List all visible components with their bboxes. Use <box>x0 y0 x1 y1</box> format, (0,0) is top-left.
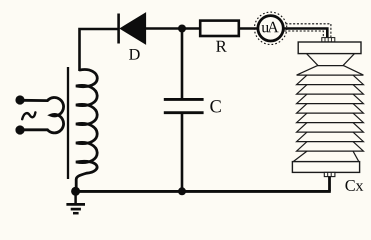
capacitor C bottom plate <box>164 111 204 114</box>
bushing sheds <box>293 66 363 162</box>
transformer primary winding <box>23 98 64 133</box>
bushing bottom cap <box>292 162 359 173</box>
ground <box>66 191 85 213</box>
node junction bottom left <box>71 187 80 196</box>
capacitor C top plate <box>164 98 204 101</box>
node junction bottom middle <box>178 187 186 195</box>
label D <box>129 49 140 60</box>
AC source terminal bottom <box>15 125 24 134</box>
resistor R <box>200 21 239 36</box>
bushing neck left <box>307 54 319 66</box>
label Cx <box>345 180 363 191</box>
transformer secondary winding <box>76 70 97 190</box>
shielded cable solid conductor <box>284 29 328 39</box>
wire secondary top to diode <box>80 29 119 71</box>
shielded cable dashed shield top <box>286 24 331 37</box>
bushing neck right <box>343 54 355 66</box>
bushing bottom terminal <box>324 172 335 176</box>
bushing top terminal <box>322 38 335 42</box>
microammeter uA <box>258 16 283 41</box>
meter shield dashed ring <box>254 12 286 44</box>
node junction top <box>178 25 186 33</box>
diode D cathode bar <box>117 14 120 44</box>
label C <box>210 100 220 112</box>
bottom wire <box>76 190 331 193</box>
wire bushing to bottom wire <box>328 177 331 192</box>
AC symbol ~ <box>22 112 35 119</box>
wire diode to resistor <box>144 27 200 30</box>
wire resistor to meter <box>240 27 258 30</box>
diode D <box>120 13 145 44</box>
capacitor branch upper wire <box>181 29 184 99</box>
bushing waist line <box>317 65 343 67</box>
capacitor branch lower wire <box>181 114 184 191</box>
shielded cable dashed shield bottom <box>285 31 324 37</box>
transformer core <box>67 67 69 179</box>
label R <box>216 41 227 52</box>
AC source terminal top <box>15 95 24 104</box>
bushing top cap <box>298 42 361 54</box>
